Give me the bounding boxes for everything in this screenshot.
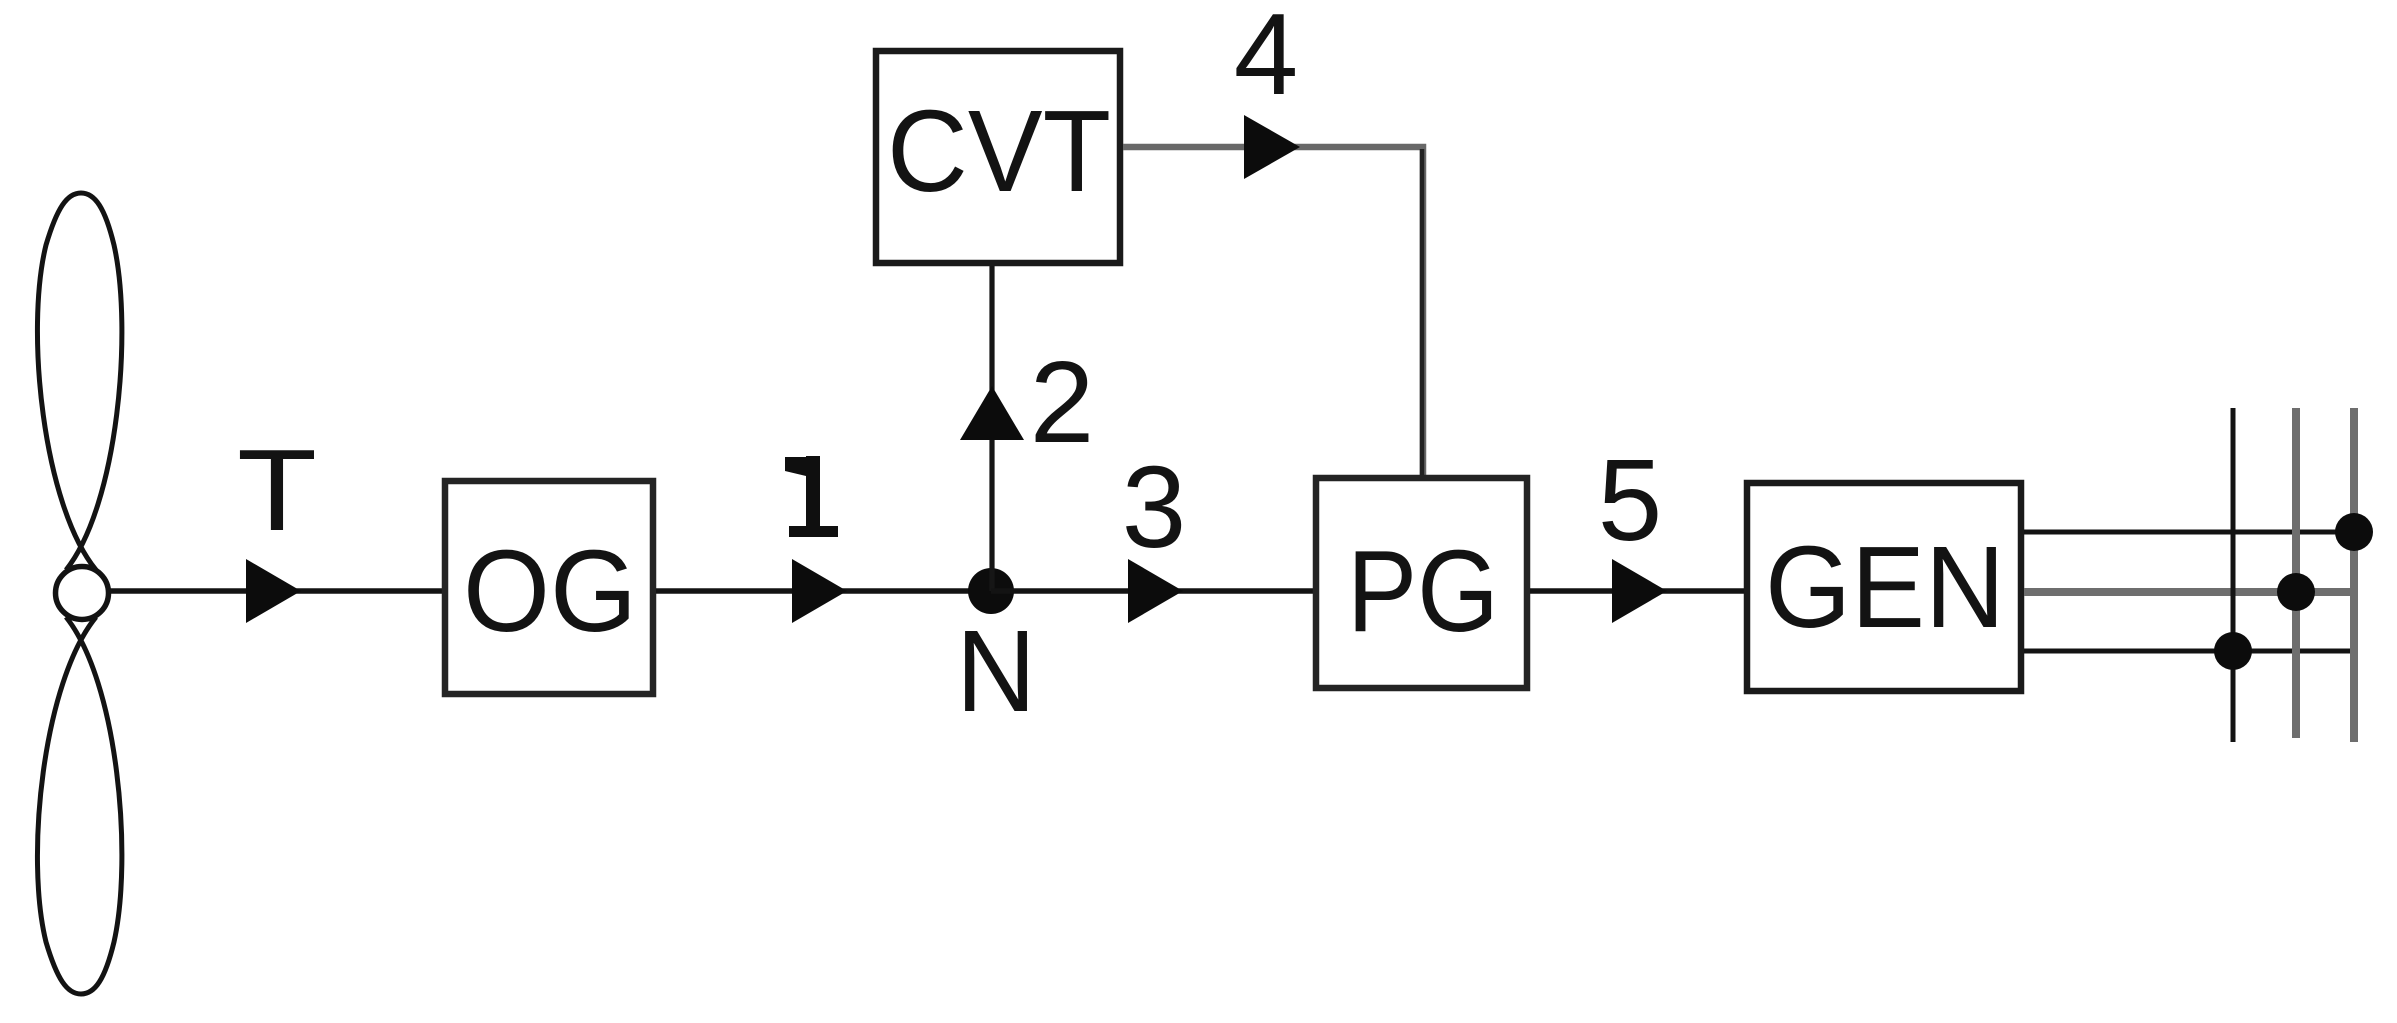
wire PG to GEN [1530, 588, 1744, 594]
turbine hub [56, 567, 109, 620]
svg-text:4: 4 [1234, 0, 1299, 119]
svg-text:OG: OG [463, 526, 637, 656]
turbine rotor blade top [37, 193, 121, 570]
grid bus line A [2231, 408, 2236, 742]
svg-text:N: N [956, 606, 1036, 736]
wire shaft hub to OG [110, 588, 442, 594]
arrow 5 [1612, 559, 1667, 623]
svg-text:3: 3 [1122, 442, 1187, 572]
wire phase b (middle) GEN to grid [2024, 588, 2356, 596]
label 1 (hand-drawn footed one) [785, 456, 838, 537]
block OG [445, 481, 653, 694]
arrow 4 [1244, 115, 1300, 179]
arrow 1 [792, 559, 847, 623]
block CVT [876, 51, 1120, 263]
block PG [1316, 478, 1527, 688]
arrow T [246, 559, 301, 623]
grid bus line B [2292, 408, 2300, 738]
wire phase c (bottom) GEN to grid [2024, 649, 2356, 654]
wire OG to node N [656, 588, 991, 594]
wire 4 vertical dark overlay [1420, 149, 1425, 475]
svg-text:CVT: CVT [887, 86, 1111, 216]
svg-text:5: 5 [1598, 435, 1663, 565]
wire CVT to PG (feedback path) [1123, 147, 1423, 475]
node N junction dot [968, 568, 1014, 614]
turbine rotor blade bottom [37, 617, 121, 994]
arrow 3 [1128, 559, 1183, 623]
wire node N to PG [991, 588, 1313, 594]
svg-text:GEN: GEN [1765, 522, 2005, 652]
arrow 2 [960, 386, 1024, 440]
wire node N up to CVT [989, 266, 994, 591]
junction dot phase c / bus A [2214, 632, 2252, 670]
junction dot phase b / bus B [2277, 573, 2315, 611]
block GEN [1747, 483, 2021, 691]
grid bus line C [2350, 408, 2358, 742]
wire phase a (top) GEN to grid [2024, 530, 2356, 535]
junction dot phase a / bus C [2335, 513, 2373, 551]
svg-text:2: 2 [1030, 337, 1095, 467]
svg-text:PG: PG [1347, 526, 1499, 656]
svg-text:T: T [237, 425, 317, 555]
